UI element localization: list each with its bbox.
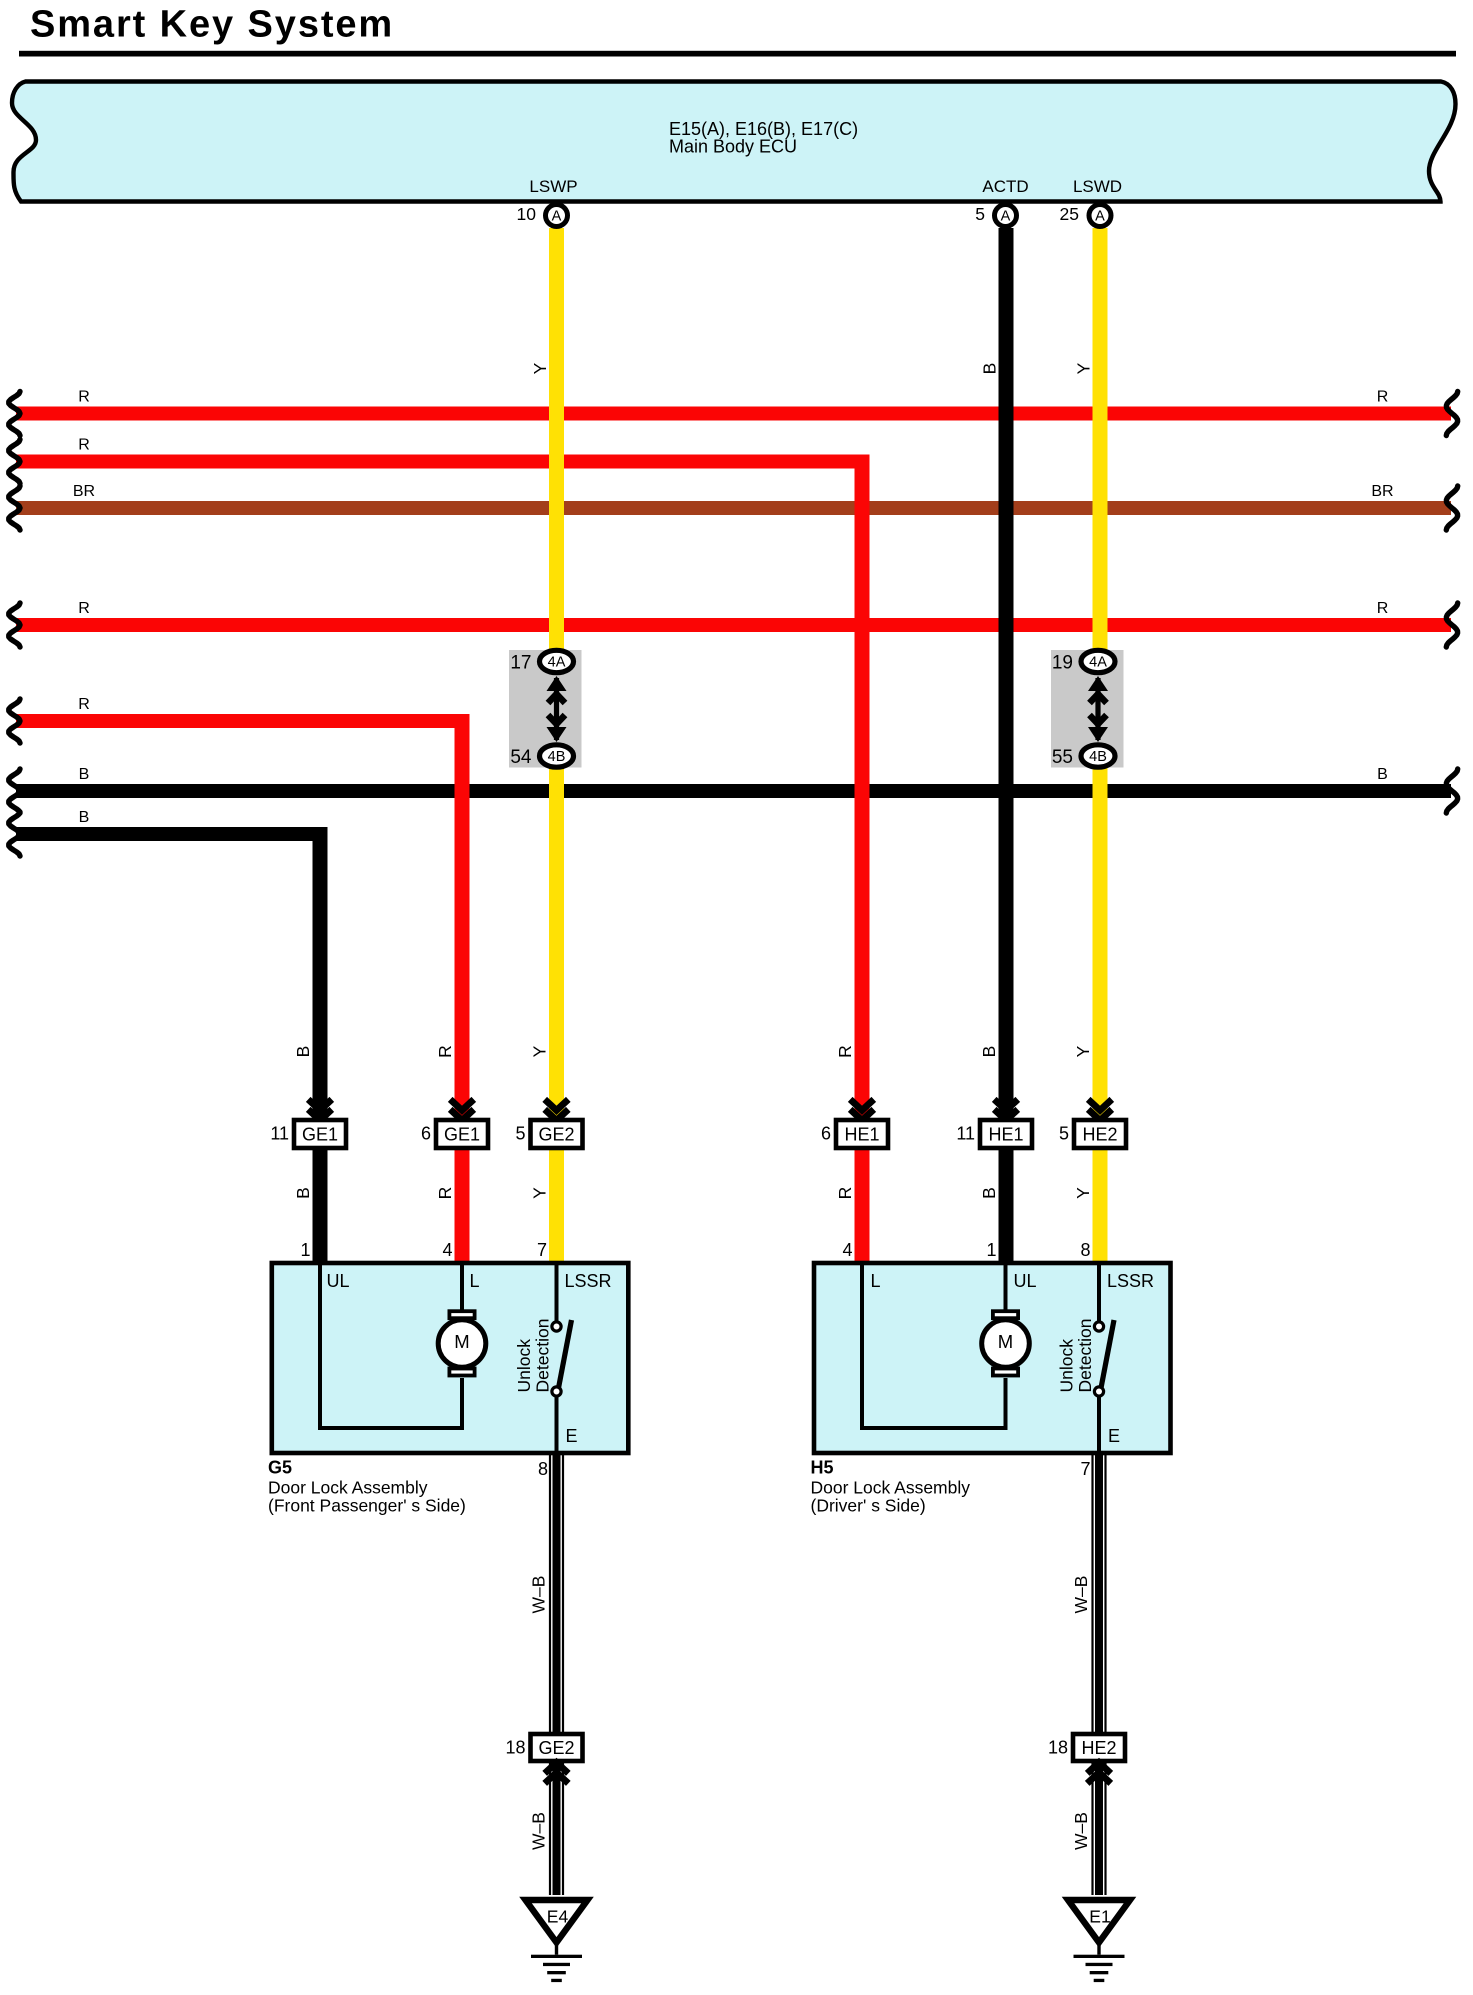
svg-text:L: L <box>871 1271 881 1291</box>
svg-text:A: A <box>552 209 562 225</box>
svg-text:18: 18 <box>505 1738 525 1758</box>
svg-text:B: B <box>1377 766 1388 783</box>
wire colour label R below GE1 (col 462) <box>435 1187 455 1200</box>
svg-text:LSSR: LSSR <box>565 1271 612 1291</box>
svg-text:R: R <box>1377 600 1389 617</box>
svg-text:4: 4 <box>842 1240 852 1260</box>
svg-text:Door Lock Assembly: Door Lock Assembly <box>811 1478 971 1498</box>
H5 Unlock Detection label <box>1057 1319 1095 1393</box>
connector GE1 pin 6 (col 462) <box>421 1120 488 1148</box>
wire label Y (LSWP) <box>530 362 550 374</box>
svg-text:ACTD: ACTD <box>982 177 1028 196</box>
svg-text:HE1: HE1 <box>988 1125 1023 1145</box>
svg-text:Detection: Detection <box>532 1319 552 1393</box>
wire label Y (LSWD) <box>1074 362 1094 374</box>
svg-text:R: R <box>78 600 90 617</box>
connector arrow up into HE2 <box>1087 1762 1111 1783</box>
svg-text:Main Body ECU: Main Body ECU <box>669 137 797 157</box>
svg-text:B: B <box>980 363 1000 375</box>
wire colour label Y above HE2 (col 1100) <box>1073 1045 1093 1057</box>
svg-text:4: 4 <box>442 1240 452 1260</box>
svg-text:(Driver' s Side): (Driver' s Side) <box>811 1496 926 1516</box>
G5 Unlock Detection label <box>514 1319 552 1393</box>
svg-text:7: 7 <box>1080 1459 1090 1479</box>
wire label B (ACTD) <box>980 363 1000 375</box>
svg-text:5: 5 <box>975 204 985 224</box>
svg-text:17: 17 <box>510 653 531 674</box>
svg-text:1: 1 <box>300 1240 310 1260</box>
wire colour label B below GE1 (col 320) <box>293 1187 313 1199</box>
wire label W-B upper (H5) <box>1071 1576 1091 1614</box>
svg-text:8: 8 <box>1080 1240 1090 1260</box>
svg-text:R: R <box>78 389 90 406</box>
wire R2 (red, turns down to HE1) <box>9 437 870 484</box>
svg-text:W–B: W–B <box>529 1812 549 1850</box>
G5 pin E label <box>566 1426 578 1446</box>
wire colour label B above GE1 (col 320) <box>293 1046 313 1058</box>
svg-text:BR: BR <box>73 483 95 500</box>
svg-text:B: B <box>79 766 90 783</box>
connector GE2 pin 5 (col 556.5) <box>515 1120 582 1148</box>
wire R1 (red, full width) <box>9 389 1458 436</box>
G5 terminal labels <box>327 1271 612 1291</box>
svg-text:R: R <box>78 437 90 454</box>
wire colour label R above HE1 (col 862) <box>835 1045 855 1058</box>
svg-text:R: R <box>1377 389 1389 406</box>
wire B2 (black, turns down to GE1) <box>9 809 328 856</box>
svg-text:HE1: HE1 <box>844 1125 879 1145</box>
svg-text:54: 54 <box>510 747 532 768</box>
connector arrow into GE2 (col 556.5) <box>545 1099 569 1120</box>
connector HE1 pin 6 (col 862) <box>821 1120 888 1148</box>
connector HE1 pin 11 (col 1006) <box>956 1120 1032 1148</box>
wire R vertical to HE1 pin6 (col 862) <box>855 455 870 1264</box>
wire R vertical to GE1 pin6 (col 462) <box>455 714 470 1263</box>
svg-text:B: B <box>979 1187 999 1199</box>
G5 unlock detection switch <box>552 1265 572 1453</box>
svg-text:Y: Y <box>530 362 550 374</box>
svg-text:(Front Passenger' s Side): (Front Passenger' s Side) <box>268 1496 466 1516</box>
connector GE2 pin 18 <box>505 1734 582 1761</box>
connector pin 5 A (ACTD) <box>975 204 1016 227</box>
svg-text:GE2: GE2 <box>538 1738 574 1758</box>
svg-text:G5: G5 <box>268 1458 292 1478</box>
door lock pin 4 (col 462) <box>442 1240 452 1260</box>
svg-text:5: 5 <box>1059 1124 1069 1144</box>
wire Y vertical LSWD (col 1100) <box>1093 228 1108 1263</box>
svg-text:E1: E1 <box>1089 1907 1110 1927</box>
ECU name label <box>669 119 858 157</box>
door lock pin 1 (col 1006) <box>986 1240 996 1260</box>
wire colour label Y below GE2 (col 556.5) <box>530 1187 550 1199</box>
connector HE2 pin 18 <box>1048 1734 1125 1761</box>
connector arrow into HE2 (col 1100) <box>1088 1099 1112 1120</box>
door lock pin 8 (col 1100) <box>1080 1240 1090 1260</box>
connector arrow up into GE2 <box>545 1762 569 1783</box>
svg-text:R: R <box>835 1045 855 1058</box>
svg-text:4B: 4B <box>548 749 566 765</box>
svg-text:8: 8 <box>538 1459 548 1479</box>
svg-text:25: 25 <box>1060 204 1079 224</box>
H5 internal wiring to motor <box>862 1265 1006 1428</box>
svg-text:Y: Y <box>530 1045 550 1057</box>
H5 caption <box>811 1458 971 1516</box>
svg-text:E: E <box>1108 1426 1120 1446</box>
svg-text:4B: 4B <box>1089 749 1107 765</box>
connector arrow into GE1 (col 320) <box>308 1099 332 1120</box>
ECU E15/E16/E17 Main Body ECU box <box>12 82 1456 202</box>
svg-text:HE2: HE2 <box>1082 1125 1117 1145</box>
svg-text:A: A <box>1095 209 1105 225</box>
svg-text:Unlock: Unlock <box>1057 1339 1077 1393</box>
svg-text:Unlock: Unlock <box>514 1339 534 1393</box>
ECU pin label ACTD <box>982 177 1028 196</box>
door lock pin 4 (col 862) <box>842 1240 852 1260</box>
wire W-B from G5 to GE2 <box>549 1453 564 1734</box>
svg-text:4A: 4A <box>1089 655 1107 671</box>
svg-text:H5: H5 <box>811 1458 834 1478</box>
svg-text:L: L <box>470 1271 480 1291</box>
wire R4 (red, turns down to GE1) <box>9 696 470 743</box>
svg-text:10: 10 <box>517 204 537 224</box>
wire label W-B upper (G5) <box>529 1576 549 1614</box>
svg-text:W–B: W–B <box>1071 1576 1091 1614</box>
svg-text:1: 1 <box>986 1240 996 1260</box>
wire colour label R below HE1 (col 862) <box>835 1187 855 1200</box>
svg-text:4A: 4A <box>548 655 566 671</box>
svg-text:5: 5 <box>515 1124 525 1144</box>
title underline <box>19 51 1456 57</box>
connector pin 10 A (LSWP) <box>517 204 568 227</box>
ECU pin label LSWP <box>529 177 577 196</box>
connector pin 25 A (LSWD) <box>1060 204 1111 227</box>
G5 caption <box>268 1458 466 1516</box>
H5 unlock detection switch <box>1094 1265 1114 1453</box>
svg-text:M: M <box>998 1331 1013 1352</box>
svg-text:19: 19 <box>1052 653 1073 674</box>
svg-text:E: E <box>566 1426 578 1446</box>
svg-text:7: 7 <box>537 1240 547 1260</box>
svg-text:LSWP: LSWP <box>529 177 577 196</box>
svg-text:W–B: W–B <box>1071 1812 1091 1850</box>
svg-text:Y: Y <box>1074 362 1094 374</box>
ground E1 <box>1068 1900 1130 1982</box>
wire colour label Y below HE2 (col 1100) <box>1073 1187 1093 1199</box>
svg-text:55: 55 <box>1052 747 1073 768</box>
svg-text:6: 6 <box>421 1124 431 1144</box>
pin number below H5 box <box>1080 1459 1090 1479</box>
wire B vertical to GE1 pin11 (col 320) <box>313 827 328 1263</box>
connector GE1 pin 11 (col 320) <box>270 1120 346 1148</box>
svg-text:GE1: GE1 <box>302 1125 338 1145</box>
svg-text:R: R <box>78 696 90 713</box>
svg-text:R: R <box>835 1187 855 1200</box>
svg-text:GE1: GE1 <box>444 1125 480 1145</box>
wire R3 (red, full width) <box>9 600 1458 647</box>
pin number below G5 box <box>538 1459 548 1479</box>
svg-text:Detection: Detection <box>1075 1319 1095 1393</box>
wire W-B from HE2 to ground E1 <box>1091 1761 1106 1895</box>
wire colour label R above GE1 (col 462) <box>435 1045 455 1058</box>
svg-text:R: R <box>435 1187 455 1200</box>
wire colour label Y above GE2 (col 556.5) <box>530 1045 550 1057</box>
svg-text:A: A <box>1001 209 1011 225</box>
door lock pin 1 (col 320) <box>300 1240 310 1260</box>
svg-text:LSSR: LSSR <box>1107 1271 1154 1291</box>
svg-text:UL: UL <box>1014 1271 1037 1291</box>
wire label W-B lower (H5) <box>1071 1812 1091 1850</box>
svg-text:UL: UL <box>327 1271 350 1291</box>
svg-text:Smart Key System: Smart Key System <box>30 4 394 46</box>
inline connector 4A/4B (pins 17-54, LSWP) <box>509 650 582 768</box>
door lock pin 7 (col 556.5) <box>537 1240 547 1260</box>
title: Smart Key System <box>30 4 394 46</box>
wire B1 (black, full width) <box>9 766 1458 813</box>
svg-text:6: 6 <box>821 1124 831 1144</box>
G5 motor M <box>438 1311 486 1375</box>
svg-text:M: M <box>454 1331 469 1352</box>
svg-text:B: B <box>979 1046 999 1058</box>
H5 terminal labels <box>871 1271 1155 1291</box>
inline connector 4A/4B (pins 19-55, LSWD) <box>1051 650 1124 768</box>
svg-text:LSWD: LSWD <box>1073 177 1122 196</box>
connector arrow into HE1 (col 862) <box>850 1099 874 1120</box>
svg-text:BR: BR <box>1371 483 1393 500</box>
svg-text:R: R <box>435 1045 455 1058</box>
svg-text:B: B <box>293 1187 313 1199</box>
svg-text:HE2: HE2 <box>1081 1738 1116 1758</box>
svg-text:B: B <box>293 1046 313 1058</box>
svg-text:Y: Y <box>530 1187 550 1199</box>
door lock assembly G5 box (front passenger side) <box>272 1263 629 1453</box>
svg-text:GE2: GE2 <box>538 1125 574 1145</box>
G5 internal wiring to motor <box>320 1265 462 1428</box>
svg-text:B: B <box>79 809 90 826</box>
wire colour label B below HE1 (col 1006) <box>979 1187 999 1199</box>
wire BR (brown, full width) <box>9 483 1458 530</box>
svg-text:Door Lock Assembly: Door Lock Assembly <box>268 1478 428 1498</box>
wire W-B from H5 to HE2 <box>1091 1453 1106 1734</box>
ECU pin label LSWD <box>1073 177 1122 196</box>
wire label W-B lower (G5) <box>529 1812 549 1850</box>
svg-text:11: 11 <box>956 1124 975 1144</box>
wire colour label B above HE1 (col 1006) <box>979 1046 999 1058</box>
connector arrow into GE1 (col 462) <box>450 1099 474 1120</box>
H5 pin E label <box>1108 1426 1120 1446</box>
H5 motor M <box>982 1311 1030 1375</box>
door lock assembly H5 box (driver side) <box>814 1263 1171 1453</box>
wire Y vertical LSWP (col 556.5) <box>549 228 564 1263</box>
svg-text:Y: Y <box>1073 1045 1093 1057</box>
svg-text:18: 18 <box>1048 1738 1068 1758</box>
connector HE2 pin 5 (col 1100) <box>1059 1120 1126 1148</box>
svg-text:11: 11 <box>270 1124 289 1144</box>
svg-text:E4: E4 <box>547 1907 569 1927</box>
connector arrow into HE1 (col 1006) <box>994 1099 1018 1120</box>
svg-text:Y: Y <box>1073 1187 1093 1199</box>
wire B vertical ACTD (col 1006) <box>999 228 1014 1263</box>
ground E4 <box>526 1900 588 1982</box>
wire W-B from GE2 to ground E4 <box>549 1761 564 1895</box>
svg-text:W–B: W–B <box>529 1576 549 1614</box>
